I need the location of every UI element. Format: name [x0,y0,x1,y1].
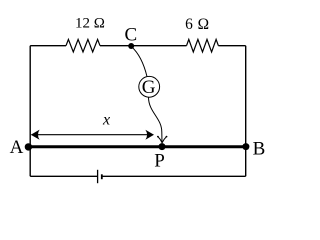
wire: left vertical [29,46,31,177]
wire: bottom left segment [30,175,97,177]
svg-text:B: B [253,139,266,160]
wire: curve from galvanometer to P [149,97,163,143]
wire: top left segment [30,45,66,47]
wire: curve from C to galvanometer [131,47,147,77]
galvanometer U1 circle [139,76,160,97]
arrowhead right (at P) [145,130,154,140]
svg-text:12 Ω: 12 Ω [75,16,105,32]
resistor R1 12Ω zigzag [66,39,100,52]
node C dot [128,43,134,49]
wire: right vertical [245,46,247,177]
dimension arrow line for x [32,134,153,136]
node P dot [159,143,166,150]
svg-text:6: 6 [185,16,193,33]
wire: top middle segment [100,45,187,47]
svg-text:P: P [154,151,165,172]
wire: bottom right segment [102,175,246,177]
battery cell: long plate [97,170,99,183]
open arrowhead at P (jockey pointer) [158,137,167,143]
node B dot [242,143,249,150]
wire: top right segment [218,45,245,47]
svg-text:Ω: Ω [198,16,209,33]
battery cell: short plate [101,174,103,179]
svg-text:x: x [102,111,110,128]
svg-text:G: G [142,77,156,98]
arrowhead left (at A) [31,130,40,140]
bridge wire A-B (thick) [28,145,246,148]
svg-text:C: C [125,24,138,45]
svg-text:A: A [10,137,24,158]
resistor R2 6Ω zigzag [187,39,219,52]
node A dot [25,143,32,150]
arrowhead barb dots [157,136,159,138]
